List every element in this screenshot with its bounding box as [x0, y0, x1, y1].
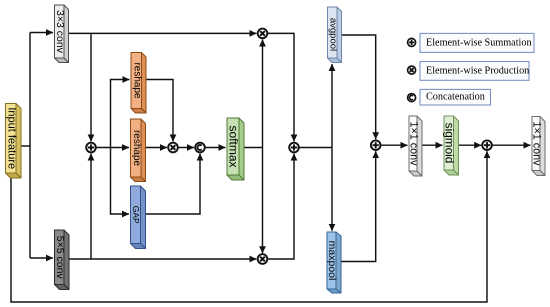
svg-text:1×1 conv: 1×1 conv: [531, 121, 543, 166]
box softmax: [227, 118, 244, 180]
legend box Element-wise Summation: [420, 33, 534, 52]
box Input feature: [6, 104, 22, 179]
legend box Element-wise Production: [420, 62, 529, 81]
wire X3 out to P2 bottom: [267, 154, 294, 259]
op C1 concatenation: [195, 143, 205, 153]
box 1x1 conv first: [409, 116, 422, 176]
wire P1 out to reshape2: [96, 147, 129, 149]
svg-text:Element-wise Summation: Element-wise Summation: [426, 37, 532, 48]
wire reshape1 out to X2 top: [146, 80, 173, 142]
svg-text:maxpool: maxpool: [326, 241, 338, 281]
wire P2 out to pool tee: [299, 147, 332, 149]
wire into 3x3 conv: [30, 32, 53, 34]
box avgpool: [328, 7, 342, 63]
svg-text:3×3 conv: 3×3 conv: [54, 10, 66, 54]
wire C1 out to softmax: [205, 147, 226, 149]
wire split vertical: [29, 33, 31, 259]
legend symbol Concatenation: [408, 94, 416, 102]
box 1x1 conv second: [532, 117, 545, 176]
svg-text:Element-wise Production: Element-wise Production: [426, 65, 529, 76]
svg-text:reshape: reshape: [131, 62, 142, 99]
wire X1 out to P2 top: [267, 33, 294, 141]
box reshape middle: [131, 119, 146, 182]
svg-text:1×1 conv: 1×1 conv: [408, 121, 420, 166]
wire P4 out to 1x1 conv b: [492, 144, 531, 146]
wire input-feature to split tee: [21, 145, 30, 147]
box sigmoid: [444, 116, 459, 175]
wire down to maxpool: [331, 148, 333, 231]
box 3x3 conv: [55, 5, 69, 63]
op P1 elementwise-sum: [86, 143, 96, 153]
op X3 elementwise-product bottom: [258, 254, 268, 264]
op P3 elementwise-sum right: [371, 140, 381, 150]
svg-text:GAP: GAP: [131, 206, 141, 224]
svg-text:avgpool: avgpool: [327, 18, 338, 51]
op P4 elementwise-sum last: [482, 140, 492, 150]
wire into 5x5 conv: [30, 257, 53, 259]
box GAP: [131, 186, 146, 249]
box maxpool: [327, 232, 341, 293]
op P2 elementwise-sum middle: [289, 143, 299, 153]
wire sigmoid out to P4: [459, 144, 482, 146]
wire P3 out to 1x1 conv a: [380, 144, 407, 146]
wire up to X1 bottom: [262, 40, 264, 148]
wire 1x1 conv a out to sigmoid: [422, 144, 443, 146]
wire GAP out to C1 bottom: [145, 154, 200, 214]
legend box Concatenation: [420, 89, 491, 105]
legend symbol Element-wise Production: [408, 66, 416, 74]
wire avgpool out to P3 top: [342, 35, 376, 139]
svg-text:reshape: reshape: [131, 130, 142, 167]
op X2 elementwise-product middle: [168, 143, 178, 153]
wire residual bottom: [11, 151, 487, 302]
wire down to X3 top: [262, 148, 264, 254]
wire softmax out tee: [244, 147, 263, 149]
wire reshape2 out to X2: [146, 147, 168, 149]
wire 3x3 conv out to X1: [69, 32, 256, 34]
legend symbol Element-wise Summation: [408, 38, 416, 46]
box reshape upper: [131, 53, 146, 114]
svg-text:Concatenation: Concatenation: [426, 92, 485, 103]
wire branch to GAP: [111, 148, 130, 215]
svg-text:softmax: softmax: [227, 125, 241, 167]
wire maxpool out to P3 bottom: [342, 151, 376, 261]
op X1 elementwise-product top: [258, 29, 268, 39]
svg-text:5×5 conv: 5×5 conv: [54, 236, 66, 280]
box 5x5 conv: [55, 230, 70, 290]
svg-text:Input feature: Input feature: [5, 107, 17, 169]
wire up to avgpool: [331, 64, 333, 148]
wire branch down to P1 top: [90, 33, 92, 141]
svg-text:sigmoid: sigmoid: [442, 123, 456, 164]
wire X2 out to C1: [178, 147, 194, 149]
wire branch up to P1 bottom: [90, 154, 92, 259]
wire branch to reshape1: [111, 80, 130, 148]
wire 5x5 conv out to X3: [70, 258, 257, 260]
